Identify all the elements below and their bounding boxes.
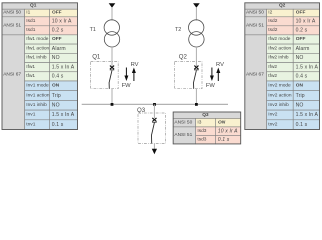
svg-text:I2: I2: [268, 10, 272, 16]
wire breaker Q3 to load: [153, 143, 155, 150]
svg-text:Inv1 action: Inv1 action: [26, 92, 50, 98]
source arrow incoming feeder 1: [109, 3, 116, 7]
svg-text:Q2: Q2: [179, 54, 188, 61]
svg-text:10 x Ir A: 10 x Ir A: [296, 19, 316, 25]
wire arrow to transformer T1: [111, 7, 113, 20]
svg-text:FW: FW: [122, 83, 132, 89]
svg-text:NO: NO: [52, 102, 60, 108]
svg-text:Ifw2 mode: Ifw2 mode: [268, 36, 290, 42]
svg-text:10 x Ir A: 10 x Ir A: [52, 19, 72, 25]
svg-text:Ifw2 inhib: Ifw2 inhib: [268, 55, 289, 61]
svg-text:ON: ON: [296, 83, 304, 89]
svg-text:ON: ON: [52, 83, 60, 89]
svg-text:T1: T1: [90, 27, 96, 33]
node junction T1-busbar: [111, 103, 114, 106]
svg-text:tsd1: tsd1: [26, 27, 35, 33]
svg-text:10 x Ir A: 10 x Ir A: [218, 128, 238, 134]
svg-text:Trip: Trip: [52, 93, 61, 99]
svg-text:NO: NO: [296, 102, 304, 108]
svg-text:OFF: OFF: [52, 36, 62, 42]
svg-text:tfw2: tfw2: [268, 73, 277, 79]
forward-power arrow down FW feeder 2: [210, 68, 214, 82]
svg-text:0.2 s: 0.2 s: [52, 28, 64, 34]
protection-settings table Q2: [245, 3, 320, 130]
load arrow outgoing feeder Q3: [152, 149, 157, 154]
svg-text:Isd1: Isd1: [26, 18, 35, 24]
svg-text:ANSI 67: ANSI 67: [246, 72, 264, 78]
svg-text:1.5 x In A: 1.5 x In A: [296, 64, 319, 70]
svg-text:RV: RV: [131, 62, 139, 68]
svg-text:ANSI 50: ANSI 50: [246, 10, 264, 16]
svg-text:NO: NO: [52, 55, 60, 61]
svg-text:Inv2 action: Inv2 action: [268, 92, 292, 98]
svg-text:Q2: Q2: [279, 3, 286, 9]
svg-text:Inv2: Inv2: [268, 112, 277, 118]
svg-text:I1: I1: [26, 10, 30, 16]
svg-text:tnv2: tnv2: [268, 121, 277, 127]
wire arrow to transformer T2: [195, 7, 197, 20]
forward-power arrow down FW feeder 1: [124, 68, 128, 82]
breaker Q3 contact cross: [152, 118, 157, 122]
svg-text:0.4 s: 0.4 s: [296, 74, 308, 80]
reverse-power arrow up RV feeder 1: [132, 68, 136, 82]
protection-settings table Q3: [173, 112, 241, 144]
svg-text:Ifw1 inhib: Ifw1 inhib: [26, 55, 47, 61]
busbar: [82, 103, 228, 105]
transformer T1: [104, 20, 120, 47]
svg-text:Q3: Q3: [202, 112, 209, 118]
wire transformer T2 to breaker Q2: [195, 47, 197, 66]
svg-text:0.2 s: 0.2 s: [296, 28, 308, 34]
breaker Q2 switch blade: [194, 70, 197, 88]
breaker Q1 switch blade: [109, 70, 112, 88]
svg-text:Isd3: Isd3: [197, 128, 206, 134]
svg-text:Isd2: Isd2: [268, 18, 277, 24]
svg-text:1.5 x In A: 1.5 x In A: [296, 112, 319, 118]
svg-text:Ifw1 action: Ifw1 action: [26, 45, 49, 51]
breaker Q1 dashed enclosure: [91, 62, 119, 89]
svg-text:Inv1 mode: Inv1 mode: [26, 83, 49, 89]
svg-text:ANSI 51: ANSI 51: [3, 23, 21, 29]
svg-text:Inv2 mode: Inv2 mode: [268, 83, 291, 89]
svg-text:0.1 s: 0.1 s: [296, 122, 308, 128]
svg-text:I3: I3: [197, 119, 201, 125]
svg-text:OFF: OFF: [296, 10, 306, 16]
svg-text:ANSI 50: ANSI 50: [3, 10, 21, 16]
svg-text:Inv1: Inv1: [26, 112, 35, 118]
svg-text:ON: ON: [218, 119, 226, 125]
svg-text:T2: T2: [175, 27, 181, 33]
svg-text:1.5 x In A: 1.5 x In A: [52, 112, 75, 118]
wire transformer T1 to breaker Q1: [111, 47, 113, 66]
svg-text:tsd3: tsd3: [197, 136, 206, 142]
svg-text:tnv1: tnv1: [26, 121, 35, 127]
svg-text:Ifw2: Ifw2: [268, 64, 277, 70]
svg-text:Inv1 inhib: Inv1 inhib: [26, 102, 47, 108]
svg-text:ANSI 67: ANSI 67: [3, 72, 21, 78]
svg-text:Ifw1: Ifw1: [26, 64, 35, 70]
source arrow incoming feeder 2: [193, 3, 200, 7]
svg-text:Q1: Q1: [92, 54, 101, 61]
svg-text:0.4 s: 0.4 s: [52, 74, 64, 80]
svg-text:1.5 x In A: 1.5 x In A: [52, 64, 75, 70]
svg-text:Ifw2 action: Ifw2 action: [268, 45, 291, 51]
svg-text:0.1 s: 0.1 s: [52, 122, 64, 128]
svg-text:RV: RV: [216, 62, 224, 68]
wire busbar to breaker Q3: [153, 104, 155, 118]
svg-text:Trip: Trip: [296, 93, 305, 99]
transformer T2: [189, 20, 205, 47]
breaker Q3 dashed enclosure: [138, 113, 166, 144]
svg-text:Ifw1 mode: Ifw1 mode: [26, 36, 48, 42]
breaker Q3 switch blade: [152, 123, 155, 144]
svg-text:0.1 s: 0.1 s: [218, 137, 230, 143]
wire breaker Q1 to busbar: [111, 89, 113, 105]
reverse-power arrow up RV feeder 2: [216, 68, 220, 82]
svg-text:Inv2 inhib: Inv2 inhib: [268, 102, 289, 108]
svg-text:Alarm: Alarm: [52, 46, 66, 52]
svg-text:tsd2: tsd2: [268, 27, 277, 33]
svg-text:FW: FW: [206, 83, 216, 89]
node junction Q3-busbar: [153, 103, 156, 106]
breaker Q2 contact cross: [194, 66, 199, 70]
svg-text:NO: NO: [296, 55, 304, 61]
svg-text:OFF: OFF: [296, 36, 306, 42]
wire breaker Q2 to busbar: [195, 89, 197, 105]
breaker Q2 dashed enclosure: [174, 62, 202, 89]
breaker Q1 contact cross: [110, 66, 115, 70]
svg-text:ANSI 50: ANSI 50: [174, 119, 192, 125]
node junction T2-busbar: [195, 103, 198, 106]
svg-text:Q1: Q1: [30, 3, 37, 9]
svg-text:OFF: OFF: [52, 10, 62, 16]
svg-text:ANSI 51: ANSI 51: [174, 132, 192, 138]
svg-text:Alarm: Alarm: [296, 46, 310, 52]
svg-text:tfw1: tfw1: [26, 73, 35, 79]
svg-text:ANSI 51: ANSI 51: [246, 23, 264, 29]
protection-settings table Q1: [2, 3, 78, 130]
